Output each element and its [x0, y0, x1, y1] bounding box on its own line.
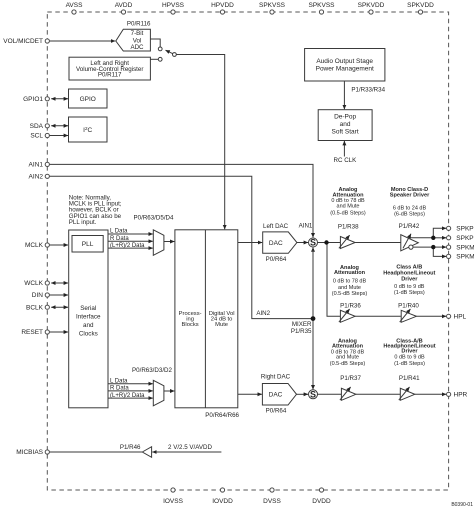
svg-text:AIN1: AIN1: [299, 223, 313, 230]
svg-text:P0/R63/D3/D2: P0/R63/D3/D2: [132, 367, 172, 374]
svg-text:7-Bit: 7-Bit: [131, 30, 144, 37]
svg-text:DAC: DAC: [269, 240, 283, 247]
svg-text:and Mute: and Mute: [338, 285, 361, 291]
svg-text:SPKVDD: SPKVDD: [407, 2, 434, 9]
svg-text:Blocks: Blocks: [182, 322, 199, 328]
svg-text:GPIO: GPIO: [80, 96, 96, 103]
svg-text:SPKVDD: SPKVDD: [358, 2, 385, 9]
svg-text:P0/R117: P0/R117: [98, 72, 122, 79]
svg-text:De-Pop: De-Pop: [334, 114, 356, 121]
svg-text:(L+R)/2 Data: (L+R)/2 Data: [110, 243, 145, 249]
svg-text:MIXER: MIXER: [292, 321, 312, 328]
svg-text:P1/R38: P1/R38: [338, 224, 359, 231]
svg-text:(1-dB Steps): (1-dB Steps): [394, 290, 425, 296]
svg-text:AIN1: AIN1: [29, 162, 44, 169]
svg-text:Soft Start: Soft Start: [332, 129, 359, 136]
svg-text:RC CLK: RC CLK: [334, 157, 358, 164]
svg-text:IOVSS: IOVSS: [163, 498, 184, 505]
svg-text:SPKM: SPKM: [456, 254, 474, 261]
svg-text:SDA: SDA: [30, 123, 44, 130]
svg-text:(0.5-dB Steps): (0.5-dB Steps): [332, 291, 368, 297]
svg-text:MCLK: MCLK: [25, 242, 44, 249]
svg-text:P0/R64: P0/R64: [266, 256, 287, 263]
svg-text:P1/R33/R34: P1/R33/R34: [351, 87, 385, 94]
svg-text:P0/R116: P0/R116: [127, 21, 151, 28]
svg-text:(1-dB Steps): (1-dB Steps): [394, 361, 425, 367]
svg-text:P1/R42: P1/R42: [399, 223, 420, 230]
svg-text:SPKM: SPKM: [456, 244, 474, 251]
svg-text:S: S: [310, 389, 316, 399]
svg-text:P1/R36: P1/R36: [340, 302, 361, 309]
svg-text:IOVDD: IOVDD: [212, 498, 233, 505]
svg-text:and: and: [340, 121, 351, 128]
svg-text:Speaker Driver: Speaker Driver: [390, 192, 430, 198]
svg-text:Class A/B: Class A/B: [396, 265, 422, 271]
svg-text:HPR: HPR: [454, 391, 468, 398]
svg-text:AVSS: AVSS: [66, 2, 84, 9]
svg-text:B0390-01: B0390-01: [451, 502, 473, 507]
svg-text:S: S: [310, 238, 316, 248]
svg-text:P0/R63/D5/D4: P0/R63/D5/D4: [134, 215, 174, 222]
svg-text:AIN2: AIN2: [29, 174, 44, 181]
svg-text:(0.5-dB Steps): (0.5-dB Steps): [330, 211, 366, 217]
svg-text:PLL: PLL: [82, 241, 94, 248]
svg-text:P1/R40: P1/R40: [398, 302, 419, 309]
svg-text:(6-dB Steps): (6-dB Steps): [394, 211, 425, 217]
svg-text:SPKP: SPKP: [456, 235, 473, 242]
svg-text:BCLK: BCLK: [26, 304, 44, 311]
svg-text:SPKVSS: SPKVSS: [308, 2, 335, 9]
svg-text:0 dB to 9 dB: 0 dB to 9 dB: [394, 355, 425, 361]
svg-text:P1/R35: P1/R35: [291, 328, 312, 335]
svg-text:Attenuation: Attenuation: [334, 270, 366, 276]
svg-text:HPVDD: HPVDD: [211, 2, 234, 9]
svg-text:VOL/MICDET: VOL/MICDET: [3, 38, 43, 45]
svg-text:DVSS: DVSS: [263, 498, 281, 505]
svg-text:L Data: L Data: [110, 378, 128, 384]
svg-text:Audio Output Stage: Audio Output Stage: [316, 58, 373, 65]
svg-text:P0/R64: P0/R64: [266, 408, 287, 415]
svg-text:DVDD: DVDD: [312, 498, 331, 505]
svg-text:P1/R46: P1/R46: [120, 444, 141, 451]
svg-text:P1/R41: P1/R41: [399, 375, 420, 382]
svg-text:P1/R37: P1/R37: [340, 375, 361, 382]
svg-text:SPKVSS: SPKVSS: [259, 2, 286, 9]
svg-text:RESET: RESET: [21, 329, 43, 336]
svg-text:R Data: R Data: [110, 386, 129, 392]
svg-text:AIN2: AIN2: [256, 310, 270, 317]
svg-text:HPVSS: HPVSS: [162, 2, 185, 9]
svg-text:L Data: L Data: [110, 229, 128, 235]
svg-text:AVDD: AVDD: [115, 2, 133, 9]
svg-text:P0/R64/R66: P0/R64/R66: [205, 412, 239, 419]
svg-text:I2C: I2C: [83, 126, 92, 134]
svg-text:and Mute: and Mute: [336, 355, 359, 361]
svg-text:R Data: R Data: [110, 236, 129, 242]
svg-text:DIN: DIN: [32, 292, 44, 299]
svg-text:SCL: SCL: [30, 133, 43, 140]
svg-text:0 dB to 78 dB: 0 dB to 78 dB: [333, 279, 367, 285]
svg-text:SPKP: SPKP: [456, 226, 473, 233]
svg-text:Mute: Mute: [215, 322, 228, 328]
svg-text:Interface: Interface: [76, 314, 101, 321]
svg-text:Power Management: Power Management: [316, 66, 374, 73]
svg-text:Driver: Driver: [401, 276, 418, 282]
svg-text:HPL: HPL: [454, 314, 467, 321]
svg-text:Serial: Serial: [80, 305, 96, 312]
svg-text:MICBIAS: MICBIAS: [16, 449, 43, 456]
svg-text:WCLK: WCLK: [24, 280, 43, 287]
svg-text:DAC: DAC: [269, 392, 283, 399]
svg-text:(0.5-dB Steps): (0.5-dB Steps): [330, 361, 366, 367]
svg-text:PLL input.: PLL input.: [69, 219, 97, 226]
svg-text:Right DAC: Right DAC: [261, 374, 291, 381]
svg-text:(L+R)/2 Data: (L+R)/2 Data: [110, 393, 145, 399]
svg-text:and Mute: and Mute: [337, 204, 360, 210]
svg-text:Left DAC: Left DAC: [263, 223, 289, 230]
svg-text:GPIO1: GPIO1: [23, 96, 43, 103]
svg-text:ADC: ADC: [130, 44, 144, 51]
svg-text:and: and: [83, 322, 94, 329]
svg-text:2 V/2.5 V/AVDD: 2 V/2.5 V/AVDD: [168, 444, 212, 451]
svg-text:0 dB to 9 dB: 0 dB to 9 dB: [394, 284, 425, 290]
svg-text:Clocks: Clocks: [79, 331, 98, 338]
